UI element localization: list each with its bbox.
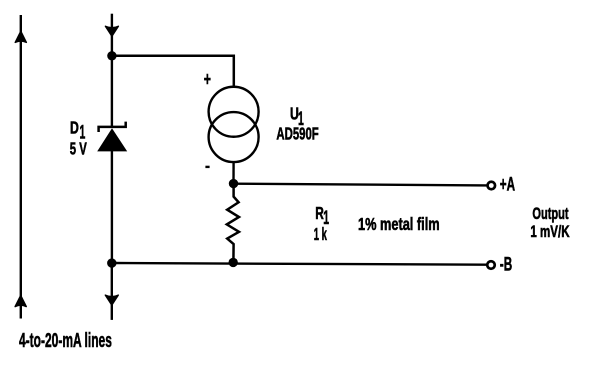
svg-text:D: D (70, 119, 79, 139)
zener diode D1 (97, 122, 127, 152)
svg-text:-B: -B (500, 254, 512, 276)
svg-text:1% metal film: 1% metal film (358, 215, 440, 234)
wire: U1 output to node A (232, 162, 235, 184)
wire: left 4-to-20-mA line with up current arrows (15, 15, 26, 319)
wire: node A to +A terminal (234, 184, 487, 186)
svg-text:R: R (315, 204, 324, 224)
wire: top node to current source U1 (112, 56, 234, 86)
svg-text:1 mV/K: 1 mV/K (530, 223, 570, 242)
terminal +A (488, 182, 496, 190)
terminal -B (487, 261, 495, 269)
node: top junction dot (107, 51, 116, 60)
label - (U1 negative terminal) (205, 166, 209, 168)
current source U1 (two overlapping circles) (209, 87, 259, 162)
svg-text:5 V: 5 V (70, 140, 87, 159)
node: U1 / R1 / +A junction dot (229, 179, 238, 188)
svg-text:1 k: 1 k (314, 224, 327, 244)
wire: cathode branch of D1 (111, 56, 113, 128)
wire: right 4-to-20-mA line bottom segment with down arrow (105, 263, 118, 320)
wire: right 4-to-20-mA line top segment with down arrow (105, 14, 118, 56)
svg-text:+: + (204, 69, 211, 90)
node: left bottom junction dot (107, 258, 116, 267)
svg-text:4-to-20-mA lines: 4-to-20-mA lines (19, 330, 112, 352)
resistor R1 (227, 184, 239, 263)
node: R1 bottom junction dot (229, 258, 238, 267)
svg-text:AD590F: AD590F (276, 125, 318, 144)
svg-text:Output: Output (532, 205, 568, 224)
wire: bottom rail to -B terminal (112, 263, 487, 265)
wire: anode branch of D1 to bottom rail (111, 150, 113, 263)
svg-text:+A: +A (500, 174, 516, 196)
